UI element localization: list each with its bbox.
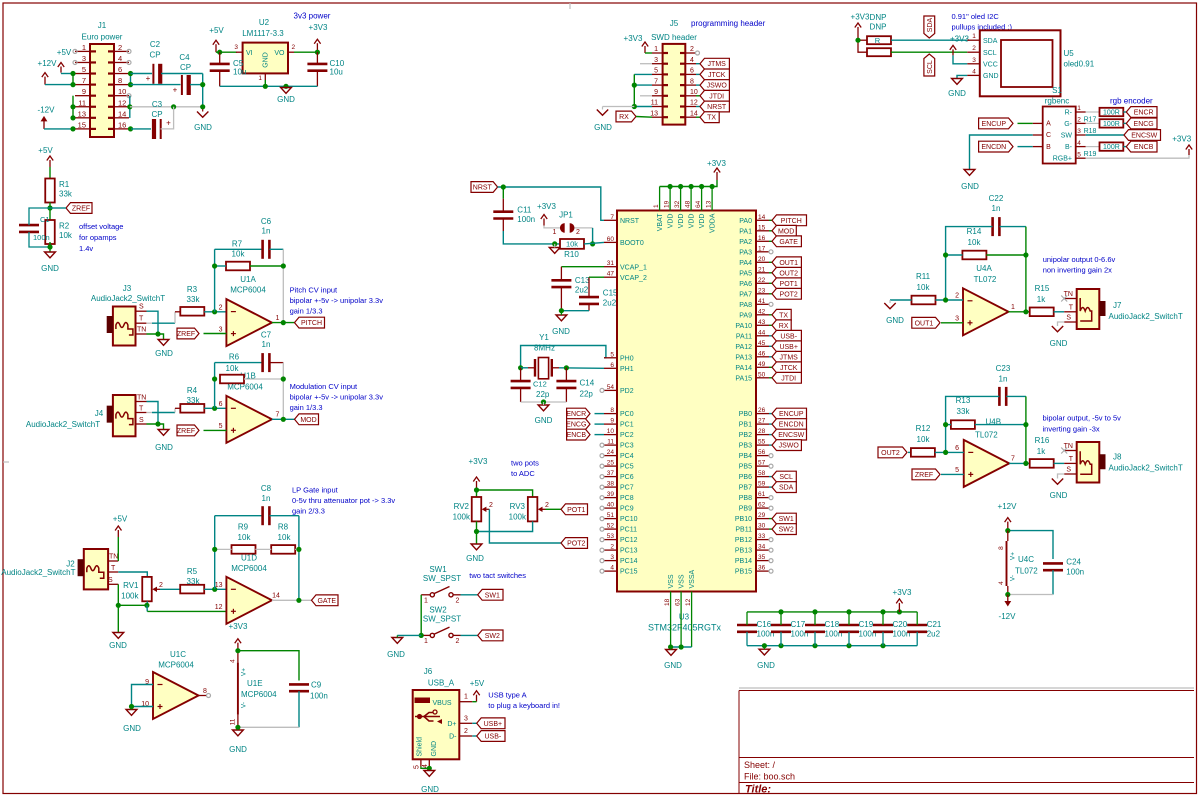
- svg-text:VCC: VCC: [983, 62, 998, 69]
- power +3V3 J5: [624, 34, 652, 53]
- wire RV1 wiper to R5: [160, 588, 181, 590]
- wire U1E top rail: [235, 648, 299, 680]
- svg-text:T: T: [111, 565, 116, 572]
- wire RX to pin13: [636, 116, 652, 119]
- svg-text:BOOT0: BOOT0: [620, 240, 644, 247]
- svg-text:+3V3: +3V3: [309, 23, 328, 32]
- svg-text:R18: R18: [1084, 128, 1097, 135]
- svg-text:C21: C21: [927, 620, 942, 629]
- svg-text:100k: 100k: [509, 513, 527, 522]
- svg-text:PC9: PC9: [620, 506, 634, 513]
- svg-text:3: 3: [610, 554, 614, 561]
- wire RV2 wiper to POT2: [489, 509, 561, 543]
- wire ENCG: [595, 423, 605, 425]
- svg-text:PB8: PB8: [739, 495, 752, 502]
- label OUT1 mcu: [769, 257, 801, 268]
- label USB- mcu: [769, 330, 801, 341]
- svg-text:ENCUP: ENCUP: [779, 411, 804, 418]
- capacitor C16: [737, 612, 774, 646]
- svg-text:7: 7: [82, 76, 86, 85]
- switch SW1 labels: [423, 565, 461, 583]
- svg-text:GND: GND: [277, 95, 295, 104]
- capacitor C19: [839, 612, 876, 646]
- text unipolar comment: [1043, 255, 1116, 275]
- svg-text:NRST: NRST: [620, 218, 640, 225]
- svg-text:S: S: [1066, 467, 1071, 474]
- wire junction pins5-7: [72, 74, 74, 85]
- svg-text:POT1: POT1: [780, 281, 798, 288]
- svg-text:VO: VO: [274, 50, 285, 57]
- label ZREF J3: [177, 328, 199, 339]
- connector J3 pins: [136, 304, 147, 335]
- svg-text:61: 61: [758, 491, 766, 498]
- label SW2: [478, 630, 503, 641]
- svg-text:OUT1: OUT1: [915, 320, 934, 327]
- wire R4 to pin6: [204, 406, 226, 411]
- svg-text:4: 4: [690, 57, 694, 64]
- svg-text:2: 2: [610, 544, 614, 551]
- svg-text:GND: GND: [664, 661, 682, 670]
- connector J4 body: [107, 395, 136, 436]
- svg-text:10k: 10k: [59, 231, 73, 240]
- label GATE mcu: [769, 236, 801, 247]
- svg-text:V-: V-: [1010, 575, 1017, 581]
- svg-text:+5V: +5V: [209, 26, 224, 35]
- svg-text:V-: V-: [241, 702, 248, 708]
- wire corner vertical: [200, 74, 205, 107]
- power +3V3 oled: [950, 35, 970, 56]
- wire U1D out: [272, 598, 312, 603]
- svg-text:GND: GND: [948, 89, 966, 98]
- svg-text:C8: C8: [261, 484, 272, 493]
- svg-text:52: 52: [607, 523, 615, 530]
- power +5V U2: [209, 26, 224, 52]
- wire J5 grey stubs: [640, 64, 652, 96]
- usb trident icon: [415, 710, 442, 724]
- svg-text:3: 3: [972, 57, 976, 64]
- svg-text:C24: C24: [1066, 558, 1081, 567]
- label OUT2 U4B: [878, 447, 907, 458]
- svg-text:10: 10: [690, 89, 698, 96]
- svg-text:6: 6: [690, 68, 694, 75]
- svg-text:ZREF: ZREF: [915, 472, 933, 479]
- resistor R16: [1030, 436, 1054, 468]
- label SW1 mcu pb: [769, 513, 796, 524]
- svg-text:2: 2: [489, 502, 493, 509]
- svg-text:9: 9: [610, 418, 614, 425]
- connector J2 labels: [1, 560, 75, 578]
- pin 3 U4A: [955, 316, 959, 323]
- potentiometer RV3: [509, 497, 549, 522]
- svg-text:JP1: JP1: [559, 211, 573, 220]
- svg-text:V+: V+: [241, 668, 248, 676]
- text two pots: [511, 459, 539, 479]
- svg-text:10k: 10k: [232, 250, 246, 259]
- capacitor C14: [556, 379, 594, 399]
- svg-text:33k: 33k: [187, 295, 201, 304]
- svg-text:programming header: programming header: [691, 19, 766, 28]
- connector J5 body: [663, 44, 686, 125]
- wire gnd to SW2: [397, 634, 421, 636]
- svg-text:GND: GND: [466, 554, 484, 563]
- svg-text:RV2: RV2: [454, 502, 470, 511]
- wire R5 to pin13: [204, 587, 226, 592]
- svg-text:ENCB: ENCB: [1134, 144, 1154, 151]
- svg-text:R15: R15: [1035, 284, 1050, 293]
- svg-text:AudioJack2_SwitchT: AudioJack2_SwitchT: [26, 420, 100, 429]
- wire pin8 to C4: [131, 84, 181, 86]
- svg-text:GND: GND: [41, 264, 59, 273]
- svg-text:VI: VI: [246, 50, 253, 57]
- svg-text:21: 21: [758, 266, 766, 273]
- svg-text:14: 14: [690, 110, 698, 117]
- svg-text:ENCDN: ENCDN: [779, 422, 804, 429]
- svg-text:OUT1: OUT1: [779, 260, 798, 267]
- svg-text:non inverting gain 2x: non inverting gain 2x: [1043, 266, 1112, 275]
- svg-text:PB3: PB3: [739, 443, 752, 450]
- svg-text:PB2: PB2: [739, 432, 752, 439]
- svg-text:PA0: PA0: [739, 218, 752, 225]
- ground GND BOOT0: [549, 241, 560, 253]
- svg-text:JTMS: JTMS: [780, 354, 799, 361]
- svg-text:PC2: PC2: [620, 432, 634, 439]
- wire xtal gnd rail: [521, 399, 567, 404]
- label TX mcu: [769, 309, 791, 320]
- label ENCB: [567, 429, 590, 440]
- wire R3 to pin2: [204, 309, 226, 314]
- label JTCK mcu: [769, 362, 801, 373]
- svg-text:C1: C1: [40, 215, 50, 224]
- switch SW1: [421, 587, 460, 605]
- svg-text:OUT2: OUT2: [779, 270, 798, 277]
- svg-text:DNP: DNP: [870, 13, 887, 22]
- svg-text:to plug a keyboard in!: to plug a keyboard in!: [488, 701, 560, 710]
- svg-text:R19: R19: [1084, 151, 1097, 158]
- svg-text:SDA: SDA: [983, 38, 998, 45]
- svg-text:PB1: PB1: [739, 422, 752, 429]
- display U5 pins: [967, 33, 998, 80]
- wire J4 TN to S: [147, 402, 159, 425]
- wire +5V to VI: [216, 50, 237, 55]
- wire pin6 to C2: [131, 73, 153, 75]
- svg-text:SW: SW: [1061, 132, 1073, 139]
- usb vbus icon: [415, 698, 431, 704]
- wire bracket pins6-8: [128, 71, 133, 87]
- svg-text:ENCG: ENCG: [1134, 121, 1154, 128]
- svg-text:33k: 33k: [187, 396, 201, 405]
- svg-text:ENCR: ENCR: [566, 411, 586, 418]
- ground GND bypass: [757, 646, 775, 670]
- resistor R2: [45, 220, 73, 244]
- wire -12V to pin15: [44, 126, 76, 131]
- encoder S1 left pins: [1033, 121, 1051, 151]
- svg-text:AudioJack2_SwitchT: AudioJack2_SwitchT: [91, 294, 165, 303]
- label RX mcu: [769, 320, 791, 331]
- svg-text:PB11: PB11: [735, 527, 752, 534]
- power +5V J6: [470, 679, 485, 702]
- svg-text:+12V: +12V: [38, 59, 58, 68]
- svg-text:gain 2/3.3: gain 2/3.3: [292, 507, 325, 516]
- wire ENCR: [595, 413, 605, 415]
- power +3V3 JP1: [537, 202, 556, 226]
- svg-text:ZREF: ZREF: [177, 331, 195, 338]
- svg-text:VDDA: VDDA: [710, 213, 717, 233]
- wire bracket pins9-15: [70, 96, 75, 121]
- capacitor C3: [151, 100, 171, 139]
- svg-text:7: 7: [276, 412, 280, 419]
- svg-text:PB15: PB15: [735, 569, 752, 576]
- connector J1 body: [90, 44, 114, 137]
- svg-text:11: 11: [78, 98, 86, 107]
- wire U1A fb left: [214, 249, 216, 311]
- svg-text:2: 2: [690, 46, 694, 53]
- label ENCUP S1: [979, 118, 1013, 129]
- svg-text:2: 2: [118, 43, 122, 52]
- svg-text:offset voltage: offset voltage: [79, 222, 123, 231]
- svg-text:TN: TN: [137, 395, 146, 402]
- svg-text:SCL: SCL: [927, 60, 934, 74]
- svg-text:2: 2: [456, 638, 460, 645]
- wire R6 right: [212, 376, 286, 381]
- svg-text:5: 5: [414, 765, 421, 769]
- svg-text:PC14: PC14: [620, 558, 638, 565]
- wire JP1 to BOOT0: [575, 228, 596, 247]
- text offset voltage: [79, 222, 123, 253]
- svg-text:C3: C3: [152, 100, 163, 109]
- svg-text:USB type A: USB type A: [488, 691, 526, 700]
- text modulation comment: [290, 382, 384, 412]
- svg-text:C23: C23: [996, 364, 1011, 373]
- svg-text:U4B: U4B: [986, 418, 1002, 427]
- wire ZREF to pin5: [204, 429, 227, 431]
- svg-text:+: +: [173, 86, 178, 95]
- svg-text:AudioJack2_SwitchT: AudioJack2_SwitchT: [1109, 312, 1183, 321]
- label POT1: [561, 504, 588, 515]
- pin 7 U4B: [1011, 456, 1015, 463]
- svg-text:+3V3: +3V3: [893, 588, 912, 597]
- wire C5 top: [219, 52, 221, 64]
- wire J7 S gnd: [1058, 322, 1065, 326]
- wire pin12 grey: [130, 104, 205, 109]
- svg-text:13: 13: [215, 582, 223, 589]
- power +3V3 pullups: [851, 13, 887, 37]
- ground GND R11: [884, 300, 904, 325]
- pin 2 U4A: [955, 293, 959, 300]
- svg-text:100n: 100n: [517, 215, 535, 224]
- svg-text:C19: C19: [859, 620, 874, 629]
- svg-text:PA6: PA6: [739, 281, 752, 288]
- svg-text:JSWO: JSWO: [779, 443, 800, 450]
- svg-text:to ADC: to ADC: [511, 469, 535, 478]
- mcu U3 body: [617, 211, 756, 592]
- label JTCK J5: [696, 69, 729, 80]
- resistor R9: [232, 523, 256, 554]
- svg-text:44: 44: [758, 329, 766, 336]
- connector J1 labels: [82, 21, 123, 42]
- encoder S1 labels: [1045, 86, 1153, 106]
- crystal Y1: [528, 358, 559, 379]
- wire RV1 bottom: [144, 601, 149, 608]
- svg-text:2u2: 2u2: [927, 630, 941, 639]
- svg-text:PB10: PB10: [735, 516, 752, 523]
- svg-text:PA14: PA14: [735, 365, 752, 372]
- capacitor C7: [261, 331, 272, 373]
- regulator U2 body: [243, 43, 288, 74]
- svg-text:100R: 100R: [1103, 144, 1120, 151]
- svg-text:gain 1/3.3: gain 1/3.3: [290, 403, 323, 412]
- svg-text:GND: GND: [886, 316, 904, 325]
- wire Y1 left: [521, 367, 528, 369]
- svg-text:41: 41: [758, 298, 766, 305]
- connector J7 labels: [1109, 301, 1183, 321]
- svg-text:10k: 10k: [226, 364, 240, 373]
- svg-text:TN: TN: [109, 554, 118, 561]
- power +12V: [38, 59, 58, 85]
- svg-text:C12: C12: [533, 380, 547, 389]
- svg-text:File: boo.sch: File: boo.sch: [744, 772, 795, 782]
- svg-text:24: 24: [607, 449, 615, 456]
- wire U4A fb top: [946, 227, 1026, 300]
- svg-text:PB6: PB6: [739, 474, 752, 481]
- svg-text:C16: C16: [757, 620, 772, 629]
- svg-text:16: 16: [118, 120, 126, 129]
- pin 12 U1D: [215, 604, 223, 611]
- resistor R14: [962, 227, 986, 259]
- svg-text:PB4: PB4: [739, 453, 752, 460]
- label SDA mcu pb: [769, 482, 796, 493]
- svg-text:R7: R7: [232, 240, 243, 249]
- svg-text:0.91" oled I2C: 0.91" oled I2C: [952, 12, 1000, 21]
- capacitor C18: [805, 612, 842, 646]
- svg-text:C9: C9: [311, 681, 322, 690]
- wire Y1 right: [559, 365, 604, 370]
- svg-text:POT2: POT2: [567, 541, 585, 548]
- svg-text:Modulation CV input: Modulation CV input: [290, 382, 358, 391]
- label OUT2 mcu: [769, 267, 801, 278]
- svg-text:2: 2: [464, 728, 468, 735]
- svg-text:11: 11: [607, 439, 614, 446]
- svg-text:22: 22: [758, 277, 766, 284]
- svg-text:R8: R8: [278, 523, 289, 532]
- svg-text:GND: GND: [983, 73, 999, 80]
- svg-text:R3: R3: [187, 285, 198, 294]
- text lp gate comment: [292, 486, 395, 516]
- svg-text:gain 1/3.3: gain 1/3.3: [290, 307, 323, 316]
- svg-text:C11: C11: [517, 206, 532, 215]
- svg-text:NRST: NRST: [473, 185, 493, 192]
- wire U1C in loop: [129, 685, 153, 710]
- svg-text:+5V: +5V: [57, 48, 72, 57]
- svg-text:14: 14: [272, 593, 280, 600]
- svg-text:VDD: VDD: [699, 214, 706, 229]
- svg-text:39: 39: [607, 491, 615, 498]
- wire SW1 to label: [461, 594, 478, 596]
- svg-text:2: 2: [159, 582, 163, 589]
- svg-text:4: 4: [610, 565, 614, 572]
- pin D+ J6: [447, 715, 472, 728]
- connector J5 labels: [651, 19, 765, 42]
- title block: [739, 688, 1194, 796]
- svg-text:G-: G-: [1064, 121, 1072, 128]
- wire U1B out: [272, 417, 295, 422]
- pin 6 U1B: [219, 401, 223, 408]
- wire RV3 wiper to POT1: [546, 508, 562, 510]
- svg-text:R16: R16: [1035, 436, 1050, 445]
- svg-text:PC13: PC13: [620, 548, 638, 555]
- power +3V3 S1: [1172, 135, 1192, 156]
- svg-text:U1D: U1D: [241, 554, 257, 563]
- svg-text:3: 3: [464, 715, 468, 722]
- connector J7 body: [1077, 289, 1106, 329]
- svg-text:5: 5: [82, 65, 86, 74]
- svg-text:POT1: POT1: [567, 507, 585, 514]
- svg-text:PA11: PA11: [736, 333, 752, 340]
- pin 6 U4B: [955, 445, 959, 452]
- pin 9 U1C: [145, 679, 149, 686]
- svg-text:CP: CP: [180, 63, 191, 72]
- svg-text:-12V: -12V: [38, 106, 56, 115]
- svg-text:GND: GND: [421, 785, 439, 794]
- wire U4B fb right: [1025, 396, 1027, 463]
- label ENCB S1: [1123, 141, 1157, 152]
- no-connect mcu right: [769, 250, 773, 573]
- wire R2 bottom: [47, 242, 52, 252]
- svg-text:rgbenc: rgbenc: [1045, 97, 1069, 106]
- connector J8 labels: [1109, 453, 1183, 473]
- wire J6 gnd: [421, 766, 432, 771]
- svg-text:rgb encoder: rgb encoder: [1110, 97, 1153, 106]
- wire VDD rail: [660, 180, 717, 189]
- svg-text:MCP6004: MCP6004: [241, 690, 277, 699]
- regulator U2 labels: [242, 18, 284, 38]
- svg-text:1: 1: [1077, 105, 1081, 112]
- svg-text:30: 30: [758, 523, 766, 530]
- svg-text:+: +: [146, 74, 151, 83]
- svg-text:C: C: [1046, 132, 1051, 139]
- svg-text:B: B: [1046, 144, 1051, 151]
- svg-text:VDD: VDD: [678, 214, 685, 229]
- power -12V U4C: [999, 595, 1017, 622]
- wire U1B fb right: [282, 363, 284, 420]
- svg-text:7: 7: [610, 214, 614, 221]
- mcu U3 left pins: [604, 214, 647, 576]
- svg-text:RGB+: RGB+: [1053, 156, 1072, 163]
- svg-text:-12V: -12V: [999, 612, 1017, 621]
- label ENCR S1: [1123, 107, 1157, 118]
- label ZREF U4B: [912, 469, 940, 480]
- svg-text:R4: R4: [187, 386, 198, 395]
- wire C1 bottom: [29, 232, 50, 247]
- svg-text:+: +: [166, 119, 171, 128]
- svg-text:33k: 33k: [59, 190, 73, 199]
- power +3V3 U2: [309, 23, 328, 52]
- svg-text:GND: GND: [123, 724, 141, 733]
- svg-text:55: 55: [758, 439, 766, 446]
- encoder S1 body: [1043, 107, 1076, 164]
- wire VSS rail: [668, 644, 692, 649]
- svg-text:U1C: U1C: [170, 650, 186, 659]
- svg-text:PC12: PC12: [620, 537, 638, 544]
- label SCL vertical: [924, 54, 935, 76]
- svg-text:Shield: Shield: [417, 737, 424, 757]
- label SW1: [478, 589, 503, 600]
- svg-text:TL072: TL072: [975, 431, 998, 440]
- svg-text:4: 4: [118, 54, 122, 63]
- svg-text:6: 6: [219, 401, 223, 408]
- svg-text:+5V: +5V: [470, 679, 485, 688]
- svg-text:TX: TX: [707, 115, 716, 122]
- resistor R8: [271, 523, 295, 554]
